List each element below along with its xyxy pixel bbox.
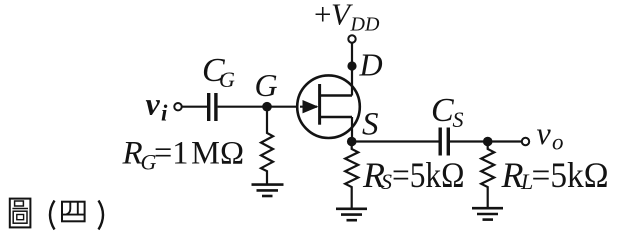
label v_i bbox=[146, 86, 169, 126]
figure caption 四 (drawn glyph) bbox=[62, 202, 85, 222]
svg-text:RS=5kΩ: RS=5kΩ bbox=[362, 155, 465, 195]
resistor R_L bbox=[481, 142, 494, 208]
label R_S = 5 kΩ bbox=[362, 155, 465, 195]
source lead bbox=[351, 117, 353, 142]
transistor Q1 (n-channel FET) bbox=[297, 75, 360, 138]
node output bbox=[483, 137, 493, 147]
node D bbox=[347, 61, 356, 70]
capacitor C_S bbox=[439, 128, 451, 156]
svg-text:RL=5kΩ: RL=5kΩ bbox=[501, 155, 609, 195]
input terminal bbox=[174, 103, 181, 110]
resistor R_S bbox=[345, 142, 358, 209]
label R_L = 5 kΩ bbox=[501, 155, 609, 195]
svg-text:S: S bbox=[362, 107, 379, 143]
label v_o bbox=[537, 115, 564, 155]
capacitor C_G bbox=[207, 93, 218, 121]
svg-text:G: G bbox=[255, 67, 278, 103]
wire S to C_S bbox=[352, 140, 439, 142]
label S bbox=[362, 107, 379, 143]
wire gate lead inside bbox=[300, 106, 317, 108]
svg-text:RG=1 MΩ: RG=1 MΩ bbox=[122, 136, 245, 175]
ground (R_S) bbox=[336, 209, 367, 220]
wire C_G to gate bbox=[218, 106, 316, 108]
svg-text:+VDD: +VDD bbox=[314, 0, 380, 36]
label D bbox=[359, 47, 383, 83]
node G bbox=[262, 102, 272, 112]
caption open paren bbox=[50, 201, 55, 230]
output terminal bbox=[522, 138, 529, 145]
wire C_S to output node bbox=[450, 140, 522, 142]
drain lead bbox=[351, 43, 353, 96]
label +V_DD bbox=[314, 0, 380, 36]
label C_G bbox=[202, 52, 235, 92]
ground (R_G) bbox=[252, 185, 284, 196]
node S bbox=[347, 137, 357, 147]
label G bbox=[255, 67, 278, 103]
figure caption 圖 (drawn glyph) bbox=[10, 199, 31, 228]
gate arrow bbox=[303, 100, 319, 113]
label C_S bbox=[431, 92, 464, 132]
svg-text:vi: vi bbox=[146, 86, 169, 126]
svg-text:D: D bbox=[359, 47, 383, 83]
source channel line bbox=[320, 116, 352, 118]
svg-text:CG: CG bbox=[202, 52, 235, 92]
svg-text:CS: CS bbox=[431, 92, 464, 132]
caption close paren bbox=[99, 201, 104, 230]
ground (R_L) bbox=[472, 208, 503, 219]
svg-text:vo: vo bbox=[537, 115, 564, 155]
label R_G = 1 MΩ bbox=[122, 136, 245, 175]
drain channel line bbox=[320, 94, 352, 96]
gate bar bbox=[318, 84, 321, 125]
wire input to C_G bbox=[182, 106, 207, 108]
supply terminal +VDD bbox=[348, 35, 355, 42]
resistor R_G bbox=[261, 107, 273, 184]
